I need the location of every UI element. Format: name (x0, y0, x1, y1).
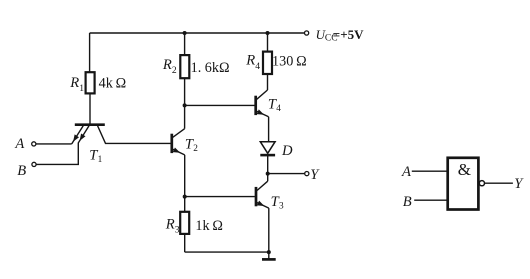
svg-text:4k Ω: 4k Ω (99, 76, 127, 92)
svg-text:R: R (165, 216, 175, 232)
svg-text:2: 2 (193, 144, 198, 154)
svg-text:3: 3 (175, 225, 180, 236)
svg-text:R: R (162, 57, 172, 73)
svg-text:A: A (401, 164, 411, 180)
svg-text:1: 1 (79, 83, 84, 94)
svg-text:R: R (69, 75, 79, 91)
svg-text:130 Ω: 130 Ω (272, 54, 307, 70)
svg-text:3: 3 (279, 202, 284, 212)
svg-text:&: & (458, 160, 471, 179)
svg-text:4: 4 (255, 61, 260, 72)
svg-text:1. 6kΩ: 1. 6kΩ (191, 60, 230, 76)
svg-text:1: 1 (98, 155, 103, 165)
svg-text:D: D (281, 143, 293, 159)
svg-text:1k Ω: 1k Ω (195, 218, 223, 234)
svg-text:4: 4 (276, 104, 281, 114)
svg-text:=+5V: =+5V (333, 27, 364, 42)
svg-text:B: B (17, 163, 26, 179)
svg-text:2: 2 (172, 65, 177, 76)
svg-text:B: B (403, 194, 412, 210)
svg-text:A: A (14, 136, 24, 152)
svg-text:R: R (245, 53, 255, 69)
